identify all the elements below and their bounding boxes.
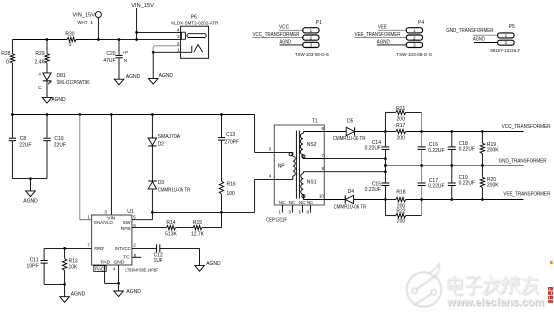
connector P1 <box>253 20 330 58</box>
svg-text:3: 3 <box>177 34 180 39</box>
junction SW D3 <box>151 211 154 214</box>
svg-text:7: 7 <box>87 242 90 247</box>
svg-text:GND_TRANSFORMER: GND_TRANSFORMER <box>499 158 547 164</box>
capacitor C15 <box>365 172 390 200</box>
resistor R14 <box>132 220 178 237</box>
svg-text:3: 3 <box>269 147 272 152</box>
wire P6 pin1 <box>152 51 192 54</box>
wire C12 to gnd <box>160 248 200 265</box>
diode D4 <box>334 189 367 211</box>
svg-text:LT8304HS8E-14PBF: LT8304HS8E-14PBF <box>125 267 158 273</box>
svg-text:R30: R30 <box>65 32 74 38</box>
U1 pin 1 ENA/VLO <box>80 214 113 226</box>
svg-text:22UF: 22UF <box>54 143 66 149</box>
svg-text:TSW-103-08-G-S: TSW-103-08-G-S <box>396 52 432 58</box>
svg-text:VIN_15V: VIN_15V <box>131 3 154 9</box>
resistor R18 <box>396 190 406 210</box>
svg-text:NC: NC <box>307 200 313 205</box>
svg-text:1: 1 <box>90 20 93 26</box>
svg-text:0: 0 <box>69 42 72 48</box>
svg-text:0: 0 <box>6 59 9 65</box>
wire T1 pin10 to D4 <box>324 199 345 201</box>
svg-text:D3: D3 <box>158 180 165 186</box>
svg-text:4: 4 <box>113 266 116 271</box>
U1 pin 2 INTVCC <box>115 242 137 251</box>
svg-text:CMMR1U-06 TR: CMMR1U-06 TR <box>334 204 367 210</box>
capacitor C11 <box>27 248 48 284</box>
T1 secondary NS1 <box>301 172 325 200</box>
T1 NC pins <box>279 200 314 215</box>
junction bus VIN pin <box>110 113 113 116</box>
svg-text:C20: C20 <box>106 51 115 57</box>
connector P1 net label AGND <box>280 39 292 45</box>
U1 pin 5 SW <box>123 214 137 226</box>
capacitor C14 <box>365 132 390 159</box>
wire C11 R13 join <box>44 283 66 297</box>
T1 pin9 number <box>321 166 324 171</box>
svg-text:2.4K: 2.4K <box>35 59 46 65</box>
svg-text:0.22UF: 0.22UF <box>428 184 444 190</box>
junction on rail at R29 <box>46 38 49 41</box>
ground AGND below C8 C10 <box>23 191 38 205</box>
svg-text:VIN_15V: VIN_15V <box>72 13 95 19</box>
pad label box <box>94 266 106 273</box>
svg-text:10PF: 10PF <box>27 264 39 270</box>
wire INTVCC <box>132 247 156 249</box>
svg-text:1: 1 <box>177 47 180 52</box>
watermark red seal <box>548 261 553 303</box>
T1 pin6 number <box>321 126 324 131</box>
svg-text:1: 1 <box>87 214 90 219</box>
connector P4 <box>355 20 433 58</box>
wire VCC rail <box>385 131 523 133</box>
node GND_TRANSFORMER <box>499 158 547 164</box>
resistor R13 <box>62 248 78 284</box>
wire D4 out <box>354 199 386 201</box>
svg-text:3: 3 <box>289 210 292 215</box>
svg-text:C13: C13 <box>226 132 235 138</box>
svg-text:NS1: NS1 <box>307 180 317 186</box>
svg-text:5: 5 <box>299 210 302 215</box>
wire RFB riser <box>221 212 223 227</box>
svg-text:3: 3 <box>310 43 313 48</box>
T1 core <box>296 131 299 199</box>
svg-text:12.7K: 12.7K <box>191 231 205 237</box>
svg-text:T1: T1 <box>312 118 318 124</box>
wire VIN_15V riser <box>136 8 138 40</box>
svg-text:AGND: AGND <box>280 39 292 45</box>
svg-text:WHT: WHT <box>77 20 87 26</box>
T1 pin3 number <box>269 147 272 152</box>
capacitor C16 <box>418 132 445 166</box>
svg-text:TSW-103-08-G-S: TSW-103-08-G-S <box>295 52 330 58</box>
svg-text:P1: P1 <box>316 20 322 26</box>
testpoint VIN_15V <box>72 12 101 40</box>
connector P4 net label VEE_TRANSFORMER <box>355 32 401 38</box>
connector P6 body <box>181 26 209 58</box>
svg-text:9: 9 <box>321 166 324 171</box>
svg-text:2: 2 <box>413 35 416 40</box>
wire VIN drop <box>110 115 112 216</box>
wire D2 D3 link <box>151 146 153 181</box>
svg-text:SML-D12P6WT86: SML-D12P6WT86 <box>57 80 90 86</box>
junctions VCC rail <box>384 130 484 133</box>
wire bus to T1 pin3 <box>255 115 275 153</box>
svg-text:AGND: AGND <box>206 261 221 267</box>
resistor R22 <box>385 209 421 225</box>
svg-text:0.22UF: 0.22UF <box>428 148 444 154</box>
svg-text:INTVCC: INTVCC <box>115 246 131 252</box>
wire GND pin <box>117 265 120 291</box>
svg-text:6: 6 <box>321 126 324 131</box>
svg-text:200: 200 <box>397 136 406 142</box>
svg-text:VEE_TRANSFORMER: VEE_TRANSFORMER <box>355 32 401 38</box>
svg-text:NC: NC <box>289 200 295 205</box>
resistor R28 <box>1 40 14 115</box>
svg-text:R21: R21 <box>396 106 405 112</box>
svg-text:D4: D4 <box>348 189 355 195</box>
resistor R21 <box>385 106 421 122</box>
T1 primary NP <box>274 152 295 179</box>
svg-text:2: 2 <box>310 35 313 40</box>
wire VEE rail <box>385 199 523 201</box>
svg-text:AGND: AGND <box>126 289 141 295</box>
svg-text:100: 100 <box>227 191 236 197</box>
wire R21 right leg <box>421 112 423 131</box>
junction bus C13 <box>220 113 223 116</box>
svg-text:7: 7 <box>321 153 324 158</box>
U1 pin 3 VIN <box>104 210 115 222</box>
svg-text:69157-102HLF: 69157-102HLF <box>490 48 520 54</box>
junction bus D2 <box>151 113 154 116</box>
capacitor C17 <box>418 166 445 200</box>
resistor R29 <box>35 40 50 66</box>
svg-text:R28: R28 <box>1 51 10 57</box>
svg-text:NC: NC <box>299 200 305 205</box>
capacitor C18 <box>448 132 475 166</box>
svg-text:PAD: PAD <box>95 266 105 272</box>
wire T1 pin9 <box>324 170 386 173</box>
node VCC_TRANSFORMER <box>502 124 551 130</box>
svg-text:AGND: AGND <box>159 73 174 79</box>
svg-text:RFB: RFB <box>121 226 131 232</box>
svg-text:R15: R15 <box>193 220 202 226</box>
T1 pin10 number <box>319 194 325 199</box>
connector P4 net label AGND <box>377 39 390 45</box>
transformer T1 body <box>274 118 324 205</box>
svg-text:D81: D81 <box>57 73 66 79</box>
svg-text:KLDX-SMT2-0202-ATR: KLDX-SMT2-0202-ATR <box>171 21 218 27</box>
diode D2 SMAJ70A <box>148 115 181 148</box>
svg-text:200K: 200K <box>487 147 499 153</box>
wire RREF <box>44 247 92 250</box>
svg-text:VCC: VCC <box>279 24 289 30</box>
wire T1 pin4 to SW <box>152 179 274 212</box>
P6 pin numbers <box>177 28 180 53</box>
ground AGND at C12 <box>195 261 221 271</box>
P6 jack receptacle <box>181 32 206 39</box>
svg-text:NC: NC <box>279 200 285 205</box>
op-amp U1 body <box>92 209 134 265</box>
svg-text:VEE: VEE <box>378 24 388 30</box>
wire D5 out <box>355 131 386 133</box>
svg-text:10K: 10K <box>69 265 79 271</box>
wire pin7 to gnd <box>384 159 387 172</box>
svg-text:P5: P5 <box>509 24 515 30</box>
svg-text:SW: SW <box>123 220 131 226</box>
svg-text:C8: C8 <box>20 136 27 142</box>
svg-text:D2: D2 <box>158 141 165 147</box>
junction bus C10 <box>46 113 49 116</box>
connector P1 net label VCC_TRANSFORMER <box>253 32 300 38</box>
svg-text:D5: D5 <box>347 118 354 124</box>
wire C8 C10 join <box>12 177 47 191</box>
wire VIN bus <box>12 114 254 116</box>
junction bus ENA <box>78 113 81 116</box>
svg-text:P6: P6 <box>191 15 197 21</box>
svg-text:AGND: AGND <box>71 292 86 298</box>
connector P5 wires <box>473 35 498 42</box>
connector P5 net label AGND <box>473 37 485 43</box>
svg-text:C11: C11 <box>30 257 39 263</box>
T1 secondary NS2 <box>300 132 324 159</box>
ground AGND below D81 <box>42 97 66 103</box>
wire P6 gnd drop <box>152 52 154 78</box>
svg-text:5: 5 <box>133 214 136 219</box>
svg-text:1: 1 <box>310 28 313 33</box>
junctions VEE rail <box>384 198 484 201</box>
capacitor C8 <box>9 115 32 179</box>
svg-text:CMMR1U-06 TR: CMMR1U-06 TR <box>158 187 191 193</box>
wire PAD pin <box>105 265 119 283</box>
wire SW pin <box>132 212 153 219</box>
ground AGND below P6 <box>148 73 173 84</box>
svg-text:1UF: 1UF <box>153 258 162 264</box>
junction bus C8 <box>11 113 14 116</box>
svg-text:PAD: PAD <box>100 259 110 265</box>
wire top VIN rail <box>12 38 180 40</box>
svg-text:AGND: AGND <box>473 37 485 43</box>
svg-text:CMMR1U-06 TR: CMMR1U-06 TR <box>333 136 366 142</box>
svg-text:P4: P4 <box>418 20 424 26</box>
svg-text:3: 3 <box>413 43 416 48</box>
U1 part label <box>125 267 158 273</box>
svg-text:0.22UF: 0.22UF <box>459 180 475 186</box>
watermark 电子发烧友 <box>448 276 538 295</box>
resistor R30 <box>65 32 76 48</box>
connector P5 net label GND_TRANSFORMER <box>446 28 494 34</box>
svg-text:NP: NP <box>278 164 286 170</box>
U1 pin PAD <box>100 259 110 265</box>
ground AGND below U1 <box>114 289 141 297</box>
wire T1 pin7 <box>324 157 386 160</box>
svg-text:AGND: AGND <box>23 198 38 204</box>
watermark logo circle <box>407 264 441 307</box>
svg-text:0.22UF: 0.22UF <box>459 147 475 153</box>
connector P1 net label VCC <box>279 24 289 30</box>
wire P6 pin4 feed <box>135 31 180 34</box>
capacitor C20 <box>103 40 128 80</box>
wire R22 right leg <box>421 200 423 216</box>
junction on rail at VIN_15V riser <box>135 38 138 41</box>
svg-text:4: 4 <box>269 174 272 179</box>
svg-text:270PF: 270PF <box>224 140 239 146</box>
resistor R17 <box>396 123 406 142</box>
svg-text:200: 200 <box>397 218 406 224</box>
svg-text:8: 8 <box>307 210 310 215</box>
capacitor C10 <box>43 115 66 179</box>
node VIN_15V label <box>131 3 154 9</box>
svg-text:R29: R29 <box>35 51 44 57</box>
svg-text:A: A <box>38 71 42 77</box>
svg-text:AGND: AGND <box>377 39 390 45</box>
svg-text:10: 10 <box>319 194 325 199</box>
wire ENA drop <box>80 115 92 220</box>
svg-text:C: C <box>38 85 42 91</box>
svg-text:VCC_TRANSFORMER: VCC_TRANSFORMER <box>253 32 300 38</box>
P6 jack switch contact <box>192 45 203 53</box>
svg-text:C10: C10 <box>54 136 63 142</box>
capacitor C12 <box>153 244 163 264</box>
wire R21 left leg <box>384 112 386 131</box>
svg-text:1: 1 <box>413 28 416 33</box>
watermark url <box>446 297 545 310</box>
wire R22 left leg <box>384 200 386 216</box>
svg-text:R17: R17 <box>396 123 405 129</box>
capacitor C19 <box>448 166 475 200</box>
svg-text:VCC_TRANSFORMER: VCC_TRANSFORMER <box>502 124 551 130</box>
ground AGND below R13 <box>60 292 86 303</box>
connector P4 net label VEE <box>378 24 388 30</box>
svg-text:1: 1 <box>505 33 508 38</box>
junctions GND rail <box>384 164 484 167</box>
svg-text:513K: 513K <box>165 231 177 237</box>
svg-text:R13: R13 <box>69 258 78 264</box>
diode D5 <box>333 118 366 142</box>
junction on rail at C20 <box>118 38 121 41</box>
svg-text:AGND: AGND <box>51 97 66 103</box>
connector P6 labels <box>171 15 218 27</box>
svg-text:4: 4 <box>177 28 180 33</box>
wire T1 pin6 to D5 <box>324 131 346 133</box>
svg-text:2: 2 <box>133 242 136 247</box>
ground AGND below C20 <box>114 74 140 85</box>
svg-text:GND_TRANSFORMER: GND_TRANSFORMER <box>446 28 494 34</box>
svg-text:0.22UF: 0.22UF <box>365 145 381 151</box>
resistor R20 <box>480 166 499 200</box>
T1 pin7 number <box>321 153 324 158</box>
svg-text:www.elecfans.com: www.elecfans.com <box>446 297 544 309</box>
T1 pin4 number <box>269 174 272 179</box>
svg-text:200K: 200K <box>487 182 499 188</box>
U1 pin 6 RFB <box>121 223 136 232</box>
wire GND rail <box>385 165 523 167</box>
svg-text:NS2: NS2 <box>307 142 317 148</box>
svg-text:+P: +P <box>122 50 128 55</box>
svg-text:200: 200 <box>397 117 406 123</box>
U1 pin 8 TC <box>123 253 141 261</box>
svg-text:R16: R16 <box>227 182 236 188</box>
resistor R16 <box>219 181 236 212</box>
svg-text:N: N <box>124 58 127 63</box>
wire P6 pin2 <box>153 46 180 53</box>
connector P5 <box>490 24 520 54</box>
svg-text:RREF: RREF <box>94 246 104 252</box>
diode D3 <box>148 180 190 212</box>
svg-text:2: 2 <box>505 40 508 45</box>
node VEE_TRANSFORMER <box>503 191 550 197</box>
U1 pin 4 GND <box>113 259 125 271</box>
svg-text:R14: R14 <box>166 220 175 226</box>
svg-text:SMAJ70A: SMAJ70A <box>158 134 181 140</box>
resistor R19 <box>480 132 499 166</box>
svg-text:VEE_TRANSFORMER: VEE_TRANSFORMER <box>503 191 550 197</box>
junction SW snubber <box>220 211 223 214</box>
svg-text:1: 1 <box>279 210 282 215</box>
svg-text:GND: GND <box>114 259 125 265</box>
capacitor C13 <box>218 115 239 182</box>
svg-text:AGND: AGND <box>126 74 141 80</box>
svg-text:CEP1311F: CEP1311F <box>266 217 287 223</box>
svg-text:22UF: 22UF <box>19 143 31 149</box>
svg-text:6: 6 <box>133 223 136 228</box>
resistor R15 <box>176 220 222 237</box>
svg-text:VIN: VIN <box>107 215 116 221</box>
svg-text:3: 3 <box>104 210 107 215</box>
LED D81 <box>38 63 90 97</box>
U1 pin 7 RREF <box>87 242 104 251</box>
svg-text:47UF: 47UF <box>103 58 115 64</box>
svg-text:R18: R18 <box>396 190 405 196</box>
svg-text:0.22UF: 0.22UF <box>365 187 381 193</box>
T1 part label <box>266 217 287 223</box>
junction on rail at TP <box>97 38 100 41</box>
svg-text:R22: R22 <box>396 209 405 215</box>
